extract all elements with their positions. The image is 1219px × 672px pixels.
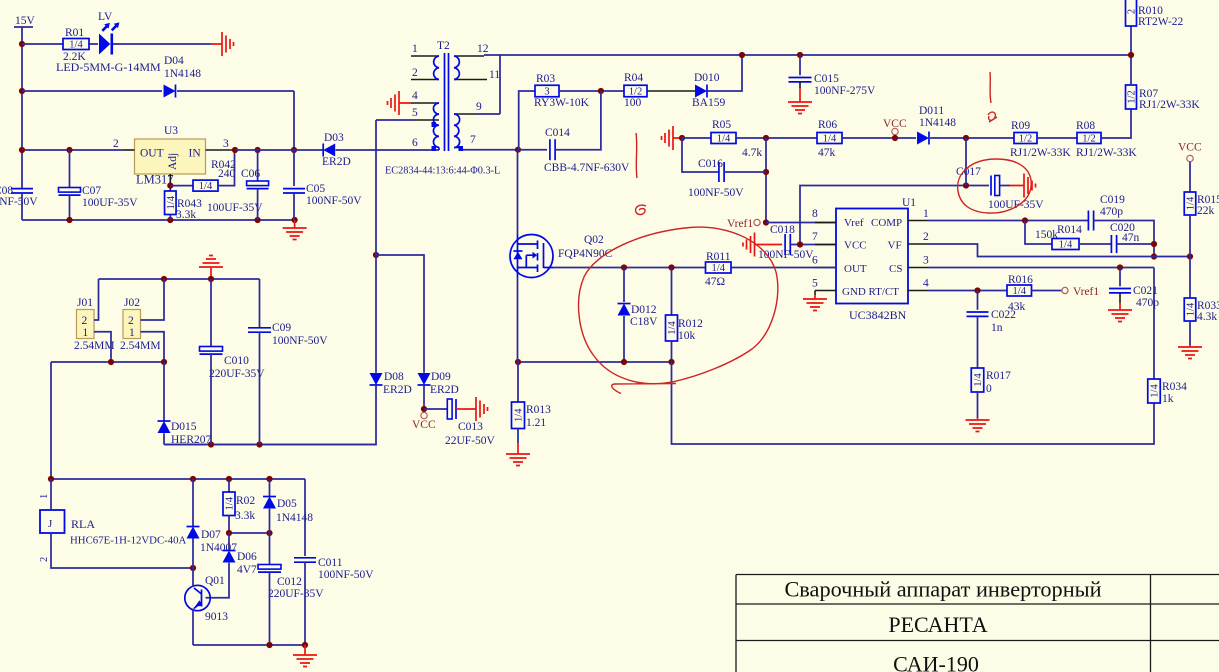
svg-text:J: J xyxy=(48,518,53,530)
svg-text:1.21: 1.21 xyxy=(526,417,546,429)
port VCC below D09 xyxy=(421,412,427,418)
node C016 right xyxy=(763,169,769,175)
wire OUT net xyxy=(553,267,706,269)
svg-text:C18V: C18V xyxy=(630,316,658,328)
svg-text:ER2D: ER2D xyxy=(322,156,351,168)
svg-text:D08: D08 xyxy=(384,371,404,383)
svg-text:C05: C05 xyxy=(306,183,325,195)
wire R09 to R08 xyxy=(1037,137,1077,139)
svg-text:1: 1 xyxy=(39,494,50,499)
wire GND pin drop xyxy=(814,291,816,296)
resistor R043 3.3k xyxy=(165,191,177,215)
svg-text:R016: R016 xyxy=(1008,274,1033,286)
wire rail U3-out to D03 and T2 pin6 xyxy=(235,149,323,151)
resistor R08 RJ1/2W-33K xyxy=(1077,133,1101,144)
capacitor C07 100UF-35V xyxy=(59,188,81,193)
svg-text:2: 2 xyxy=(1127,9,1138,14)
node winding tap junction xyxy=(373,252,379,258)
annotation scribble upper right xyxy=(988,112,997,122)
svg-text:R034: R034 xyxy=(1162,381,1187,393)
wire R03 to R04 xyxy=(559,90,624,92)
node C018 pin7 junction xyxy=(797,241,803,247)
ground below C021 xyxy=(1108,303,1132,322)
svg-text:COMP: COMP xyxy=(871,217,902,229)
wire D07 riser xyxy=(192,479,194,526)
ground right of C017 xyxy=(1010,174,1036,198)
svg-text:9: 9 xyxy=(476,101,482,113)
svg-text:1N4148: 1N4148 xyxy=(919,117,956,129)
svg-text:IN: IN xyxy=(189,148,202,160)
svg-text:R03: R03 xyxy=(536,73,555,85)
wire J02 pin1 xyxy=(141,332,165,362)
diode D06 4V7 zener xyxy=(223,551,236,563)
capacitor C020 47n xyxy=(1110,235,1112,253)
svg-text:R09: R09 xyxy=(1011,120,1030,132)
svg-text:4V7: 4V7 xyxy=(237,564,257,576)
power port VCC right xyxy=(1187,155,1193,161)
node top rail at C015 xyxy=(797,52,803,58)
svg-text:RY3W-10K: RY3W-10K xyxy=(534,97,590,109)
resistor R010 RT2W-22 xyxy=(1126,0,1137,26)
svg-text:R01: R01 xyxy=(65,27,84,39)
svg-text:RJ1/2W-33K: RJ1/2W-33K xyxy=(1139,99,1200,111)
node D05-C012 junction xyxy=(266,530,272,536)
svg-text:1/4: 1/4 xyxy=(514,408,525,422)
svg-text:100: 100 xyxy=(624,97,642,109)
svg-text:3: 3 xyxy=(923,255,929,267)
svg-text:470p: 470p xyxy=(1100,206,1123,218)
node C010 bottom xyxy=(208,441,214,447)
svg-text:1/2: 1/2 xyxy=(1082,134,1095,145)
capacitor C017 100UF-35V xyxy=(990,176,992,196)
wire R02 bottom xyxy=(228,516,230,534)
wire C012 riser xyxy=(269,533,271,565)
ground at U1 pin5 xyxy=(803,295,827,311)
op-amp U1 UC3842BN body xyxy=(836,209,908,304)
wire C015 to ground xyxy=(799,82,801,88)
wire J01 pin1 xyxy=(94,332,111,362)
capacitor C013 22UF-50V xyxy=(447,399,452,419)
svg-text:D09: D09 xyxy=(431,371,451,383)
node D05 top xyxy=(266,476,272,482)
svg-text:D012: D012 xyxy=(631,304,657,316)
wire R014 branch xyxy=(1025,221,1052,245)
svg-text:C011: C011 xyxy=(318,557,343,569)
capacitor C014 CBB-4.7NF-630V xyxy=(549,139,551,160)
svg-text:11: 11 xyxy=(489,69,500,81)
svg-text:2: 2 xyxy=(128,315,134,327)
wire COMP net xyxy=(928,220,1088,222)
svg-text:R04: R04 xyxy=(624,72,643,84)
svg-text:R012: R012 xyxy=(678,318,703,330)
wire sense to CS bottom rail xyxy=(672,362,1155,444)
svg-text:47Ω: 47Ω xyxy=(705,276,725,288)
ground right of LED xyxy=(211,32,234,56)
node C06 bottom xyxy=(255,217,261,223)
wire C011 branch xyxy=(304,479,306,556)
capacitor C012 220UF-35V xyxy=(258,565,281,570)
svg-text:CS: CS xyxy=(889,263,902,275)
svg-text:C021: C021 xyxy=(1133,285,1158,297)
node C022 branch xyxy=(974,287,980,293)
wire Vref1 to U1 pin8 xyxy=(766,222,836,224)
node D012 top xyxy=(621,264,627,270)
diode D09 ER2D xyxy=(418,373,431,385)
diode D05 1N4148 xyxy=(263,497,276,509)
wire 15V rail vertical left xyxy=(21,27,23,188)
svg-text:1k: 1k xyxy=(1162,393,1174,405)
svg-text:2: 2 xyxy=(39,557,50,562)
diode D012 C18V zener xyxy=(618,304,631,316)
node R014 branch xyxy=(1022,217,1028,223)
node VCC supply junction xyxy=(421,406,427,412)
diode D08 ER2D xyxy=(370,373,383,385)
svg-text:1/4: 1/4 xyxy=(1186,196,1197,210)
wire mid link xyxy=(229,532,270,534)
capacitor C019 470p xyxy=(1087,211,1089,231)
wire J-rail upper xyxy=(99,278,260,280)
wire C022 to R017 xyxy=(977,316,979,368)
ground above C010 xyxy=(199,256,223,280)
svg-text:22UF-50V: 22UF-50V xyxy=(445,435,496,447)
LED LV xyxy=(99,34,110,55)
node C020 junction xyxy=(1151,241,1157,247)
svg-text:C018: C018 xyxy=(770,224,795,236)
wire C014 right riser xyxy=(555,91,601,150)
wire R05 to R06 xyxy=(736,137,817,139)
wire C012 bottom xyxy=(269,572,271,645)
svg-text:1/2: 1/2 xyxy=(1019,134,1032,145)
node J02 pin1 junction xyxy=(161,359,167,365)
capacitor C016 100NF-50V xyxy=(718,162,720,182)
wire U3 output rail xyxy=(22,149,124,151)
node C011 bottom ground xyxy=(302,642,308,648)
wire relay feed rail xyxy=(51,361,164,363)
wire C017 top rail xyxy=(800,186,989,245)
node D012 bottom xyxy=(621,359,627,365)
wire CS corner to R034 xyxy=(1153,268,1155,380)
transformer T2 winding pins 4-5-6 xyxy=(411,102,439,104)
wire CS net xyxy=(928,267,1154,269)
wire Q02 source to R013 xyxy=(517,362,519,402)
title block frame xyxy=(736,575,1219,672)
wire RT/CT net xyxy=(928,290,1007,292)
svg-text:C013: C013 xyxy=(458,421,483,433)
annotation loop around D012 R011 R012 xyxy=(579,227,778,393)
node R043 bottom xyxy=(167,217,173,223)
wire D09 to VCC node xyxy=(423,385,425,409)
node D011 riser at C017 rail xyxy=(963,182,969,188)
svg-text:R08: R08 xyxy=(1076,120,1095,132)
wire relay supply rail xyxy=(51,478,305,480)
wire R07 to R010 xyxy=(1130,26,1132,85)
wire C019 to corner xyxy=(1094,221,1154,257)
node VF wire junction xyxy=(1151,253,1157,259)
transistor Q01 9013 xyxy=(185,585,210,610)
node U3 out rail at left rail xyxy=(19,147,25,153)
diode D010 BA159 xyxy=(695,85,707,98)
wire D012 bottom xyxy=(623,316,625,362)
svg-text:7: 7 xyxy=(812,231,818,243)
wire VCC to R015 xyxy=(1189,162,1191,192)
node C05 top xyxy=(291,147,297,153)
annotation vertical stroke near C014 xyxy=(636,133,637,178)
wire left rail to relay xyxy=(50,362,52,479)
transistor Q02 FQP4N90C xyxy=(510,235,553,278)
ground below C05 rail xyxy=(283,220,307,240)
resistor R06 47k xyxy=(817,133,842,144)
wire LED row xyxy=(22,43,63,45)
svg-text:3.3k: 3.3k xyxy=(176,209,196,221)
svg-text:Q01: Q01 xyxy=(205,575,225,587)
svg-text:U1: U1 xyxy=(902,197,916,209)
svg-text:9013: 9013 xyxy=(205,611,228,623)
wire D015 to ground rail xyxy=(163,433,165,444)
wire R02 riser xyxy=(228,479,230,492)
ground at T2 pin 4 xyxy=(388,91,412,115)
svg-text:1: 1 xyxy=(129,327,135,339)
resistor R042 240 xyxy=(193,180,218,191)
node R02 top xyxy=(226,476,232,482)
capacitor C06 100UF-35V xyxy=(247,181,269,186)
node C012 bottom xyxy=(266,642,272,648)
ground below C015 xyxy=(788,99,812,114)
svg-text:2.54MM: 2.54MM xyxy=(74,340,115,352)
svg-text:OUT: OUT xyxy=(844,263,867,275)
wire R042 to pin3 riser xyxy=(218,150,235,186)
svg-text:2: 2 xyxy=(113,138,119,150)
node C07 bottom xyxy=(66,217,72,223)
svg-text:1N4148: 1N4148 xyxy=(276,512,313,524)
wire bottom rail left block xyxy=(22,219,295,221)
svg-text:2: 2 xyxy=(82,315,88,327)
node VCC junction xyxy=(892,135,898,141)
wire U3 adj pin xyxy=(169,174,171,191)
svg-text:R014: R014 xyxy=(1057,224,1082,236)
svg-text:1/2: 1/2 xyxy=(1127,90,1138,103)
diode D011 1N4148 xyxy=(917,132,929,145)
svg-text:Vref1: Vref1 xyxy=(727,218,753,230)
svg-text:3: 3 xyxy=(223,138,229,150)
svg-text:C022: C022 xyxy=(991,309,1016,321)
svg-text:HHC67E-1H-12VDC-40A: HHC67E-1H-12VDC-40A xyxy=(70,535,187,547)
ground below R033 xyxy=(1178,345,1202,359)
svg-text:10k: 10k xyxy=(678,330,696,342)
svg-text:1/4: 1/4 xyxy=(823,134,837,145)
svg-text:ER2D: ER2D xyxy=(383,384,412,396)
svg-text:C012: C012 xyxy=(277,576,302,588)
node R012 bottom xyxy=(668,359,674,365)
node Vref1 junction xyxy=(763,219,769,225)
wire RLA pin2 to Q01 collector xyxy=(51,533,193,568)
wire relay ground rail xyxy=(193,644,305,646)
resistor R016 43k xyxy=(1007,285,1032,296)
diode D07 1N4007 xyxy=(187,527,200,539)
resistor R015 22k xyxy=(1184,192,1196,215)
svg-text:8: 8 xyxy=(812,208,818,220)
svg-text:Vref1: Vref1 xyxy=(1073,286,1099,298)
svg-text:D07: D07 xyxy=(201,529,221,541)
svg-text:Сварочный аппарат инверторный: Сварочный аппарат инверторный xyxy=(784,577,1101,602)
wire R012 riser top xyxy=(671,268,673,316)
wire D011 to R09 xyxy=(930,137,1014,139)
wire D06 riser xyxy=(228,533,230,550)
svg-text:7: 7 xyxy=(470,134,476,146)
wire C010 riser xyxy=(210,279,212,347)
node R02-D06 junction xyxy=(226,530,232,536)
node C017 riser junction xyxy=(963,135,969,141)
svg-text:1N4007: 1N4007 xyxy=(200,542,237,554)
svg-text:OUT: OUT xyxy=(140,148,164,160)
svg-text:1/4: 1/4 xyxy=(166,195,177,209)
port Vref1 upper xyxy=(754,219,760,225)
svg-text:1/2: 1/2 xyxy=(629,87,642,98)
polarity dot T2 pin5 xyxy=(432,122,437,127)
port Vref1 right xyxy=(1062,287,1068,293)
node D07 top xyxy=(190,476,196,482)
wire C08 bottom xyxy=(21,193,23,220)
node 15V junction to LED wire xyxy=(19,41,25,47)
wire C020 to corner xyxy=(1117,243,1154,245)
svg-text:RT2W-22: RT2W-22 xyxy=(1138,16,1184,28)
svg-text:D015: D015 xyxy=(171,421,197,433)
polarity dot T2 pin6 xyxy=(432,146,437,151)
node Adj junction xyxy=(167,183,173,189)
capacitor C015 100NF-275V xyxy=(789,77,812,79)
wire C016 right riser xyxy=(765,138,767,223)
svg-text:J02: J02 xyxy=(124,297,140,309)
svg-text:C015: C015 xyxy=(814,73,839,85)
svg-text:R011: R011 xyxy=(706,251,731,263)
svg-text:GND: GND xyxy=(842,286,866,298)
svg-text:1/4: 1/4 xyxy=(1059,240,1073,251)
wire C022 riser xyxy=(977,291,979,310)
wire R033 to ground xyxy=(1189,321,1191,345)
wire VF net xyxy=(928,244,1190,257)
wire J02 pin2 xyxy=(141,279,165,320)
resistor R017 0 xyxy=(971,368,984,392)
svg-text:100UF-35V: 100UF-35V xyxy=(988,199,1044,211)
svg-text:D05: D05 xyxy=(277,498,297,510)
svg-text:LV: LV xyxy=(98,11,113,23)
node C021 branch xyxy=(1117,264,1123,270)
svg-text:100NF-50V: 100NF-50V xyxy=(272,335,328,347)
wire C016 branch left xyxy=(682,138,719,172)
diode D015 HER207 xyxy=(158,421,171,433)
wire R03 branch xyxy=(519,91,535,150)
wire C07 riser xyxy=(69,150,71,187)
svg-text:47n: 47n xyxy=(1122,232,1140,244)
wire D011 cathode riser xyxy=(965,138,967,186)
wire R014 to C020 xyxy=(1079,243,1111,245)
transformer T2 winding pins 9-7 xyxy=(454,113,478,115)
svg-text:1/4: 1/4 xyxy=(1186,302,1197,316)
svg-text:5: 5 xyxy=(812,278,818,290)
wire C07 bottom xyxy=(69,195,71,220)
svg-text:FQP4N90C: FQP4N90C xyxy=(558,248,613,260)
wire D06 to Q01 base xyxy=(206,563,230,598)
svg-text:C09: C09 xyxy=(272,322,291,334)
svg-text:240: 240 xyxy=(218,168,236,180)
relay RLA HHC67E xyxy=(40,510,65,533)
node C09 bottom xyxy=(256,441,262,447)
wire C010 bottom xyxy=(210,354,212,444)
svg-text:J01: J01 xyxy=(77,297,93,309)
svg-text:2: 2 xyxy=(923,231,929,243)
svg-text:LED-5MM-G-14MM: LED-5MM-G-14MM xyxy=(56,60,161,74)
ground left of R05 xyxy=(662,126,683,150)
svg-text:R017: R017 xyxy=(986,370,1011,382)
wire C013 to ground xyxy=(456,408,466,410)
resistor R07 RJ1/2W-33K xyxy=(1126,85,1137,109)
annotation vertical stroke upper right xyxy=(990,72,991,103)
svg-text:VF: VF xyxy=(888,240,902,252)
power port VCC at R06 xyxy=(892,128,898,134)
node R013 top xyxy=(515,359,521,365)
diode D03 ER2D xyxy=(323,144,335,157)
wire C018 to U1 pin7 xyxy=(790,244,836,246)
resistor R04 100 xyxy=(624,85,647,97)
svg-text:1/4: 1/4 xyxy=(1150,384,1161,398)
annotation circle around C017 xyxy=(958,159,1032,213)
wire R08 to R07 xyxy=(1101,109,1131,138)
wire C011 bottom xyxy=(304,562,306,645)
svg-text:C010: C010 xyxy=(224,355,249,367)
ground left of C018 xyxy=(743,233,755,257)
svg-text:150k: 150k xyxy=(1035,229,1058,241)
svg-text:C016: C016 xyxy=(698,158,723,170)
svg-text:2.54MM: 2.54MM xyxy=(120,340,161,352)
svg-text:R02: R02 xyxy=(236,495,255,507)
svg-text:BA159: BA159 xyxy=(692,97,725,109)
svg-text:100NF-50V: 100NF-50V xyxy=(318,569,374,581)
wire R015 to VF node xyxy=(1189,215,1191,298)
svg-text:D04: D04 xyxy=(164,55,184,67)
resistor R033 4.3k xyxy=(1184,298,1196,321)
svg-text:100NF-50V: 100NF-50V xyxy=(688,187,744,199)
svg-text:22k: 22k xyxy=(1197,205,1215,217)
wire R017 to ground xyxy=(977,392,979,418)
wire D012 riser top xyxy=(623,268,625,303)
ground below R017 xyxy=(966,418,990,432)
wire R016 to Vref1 port xyxy=(1032,290,1062,292)
svg-text:EC2834-44:13:6:44-Φ0.3-L: EC2834-44:13:6:44-Φ0.3-L xyxy=(385,166,500,177)
node C06 top xyxy=(255,147,261,153)
svg-text:1/4: 1/4 xyxy=(712,263,726,274)
wire D09 branch xyxy=(376,255,424,373)
resistor R034 1k xyxy=(1148,379,1161,403)
connector J01 xyxy=(77,310,95,339)
wire C09 bottom xyxy=(259,332,261,444)
svg-text:100NF-50V: 100NF-50V xyxy=(0,196,38,208)
capacitor C05 100NF-50V xyxy=(283,188,305,190)
svg-text:100UF-35V: 100UF-35V xyxy=(82,197,138,209)
node J02 pin2 riser xyxy=(161,276,167,282)
svg-text:1: 1 xyxy=(923,208,929,220)
svg-text:D06: D06 xyxy=(237,551,257,563)
resistor R03 RY3W-10K xyxy=(535,85,559,97)
transformer T2 secondary winding pins 12-11 xyxy=(454,55,484,57)
wire winding tap to D08 xyxy=(375,120,377,373)
wire T2 pin9 riser to top rail xyxy=(484,55,500,114)
svg-text:47k: 47k xyxy=(818,147,836,159)
wire D05 bottom xyxy=(269,509,271,533)
svg-text:220UF-35V: 220UF-35V xyxy=(209,368,265,380)
svg-text:1: 1 xyxy=(412,43,418,55)
ground right of C013 xyxy=(466,397,488,421)
resistor R013 1.21 xyxy=(512,402,525,429)
svg-text:RJ1/2W-33K: RJ1/2W-33K xyxy=(1076,147,1137,159)
